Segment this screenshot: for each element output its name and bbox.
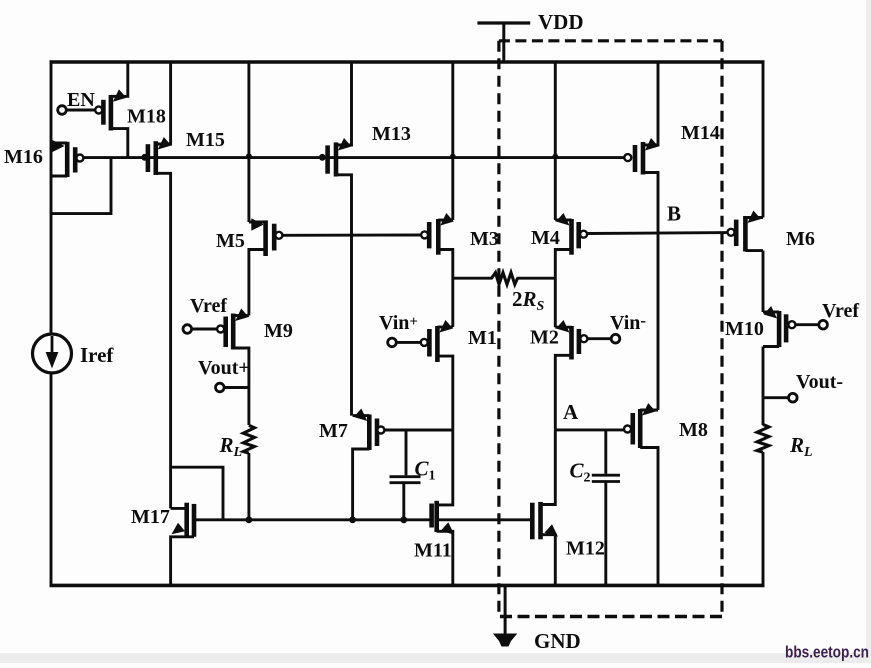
wire M16 drain loop [51,159,111,214]
transistor M7 [353,409,385,520]
svg-text:M5: M5 [216,230,245,252]
node dot M13 gate [319,154,326,161]
transistor M12 [530,430,558,586]
terminal Vref right [819,320,828,329]
wire PMOS gate bus [83,156,624,159]
svg-text:M1: M1 [468,327,497,349]
label GND [534,629,581,653]
svg-text:GND: GND [534,629,581,653]
label M9 [264,320,293,342]
svg-text:VDD: VDD [538,10,584,34]
transistor M14 [624,62,658,410]
node dot M15 gate [141,154,148,161]
svg-text:Vout+: Vout+ [198,357,250,379]
label Vin- [610,311,646,334]
svg-text:Vref: Vref [822,300,859,322]
node dot bus-M7 [349,516,356,523]
terminal Vout+ [216,383,225,392]
junction M4-stem x gate bus [553,154,559,160]
wire Vout- tap [763,396,789,399]
label M12 [566,538,605,560]
label M1 [468,327,497,349]
label Vref right [822,300,859,322]
wire bottom bus left [194,518,432,521]
svg-text:M2: M2 [530,327,559,349]
label C2 [570,459,591,486]
label M7 [319,420,348,442]
svg-text:M15: M15 [186,129,225,151]
transistor M9 [192,309,249,388]
transistor M8 [624,403,658,585]
wire C1 top [405,430,408,475]
dashed box right edge [720,41,723,617]
svg-text:Vout-: Vout- [796,371,843,393]
transistor M2 [555,320,611,430]
wire C1 bottom [402,483,405,520]
label M2 [530,327,559,349]
label M10 [725,318,764,340]
label M11 [414,540,452,562]
wire bottom bus right [437,518,533,521]
capacitor C2 [592,475,620,481]
transistor M4 [555,213,587,327]
label M5 [216,230,245,252]
terminal Vout- [789,393,798,402]
label VDD [538,10,584,34]
wire left border upper [50,62,53,334]
wire 2RS right [517,277,556,280]
svg-text:M8: M8 [679,419,708,441]
transistor M6 [728,211,764,252]
terminal Vin- [611,334,620,343]
wire node B [587,231,727,235]
transistor M15 [146,62,172,508]
svg-text:Iref: Iref [80,343,114,367]
node dot bus-C1 [400,516,407,523]
wire C2 bottom [604,482,607,586]
svg-text:M9: M9 [264,320,293,342]
svg-text:M3: M3 [470,228,499,250]
label A [563,400,579,424]
dashed box bottom edge [500,615,722,618]
wire M4 source stem [554,62,557,220]
label Vref left [190,295,227,317]
label M4 [531,227,560,249]
wire Vout+ tap [224,386,249,389]
transistor M17 [171,503,197,586]
svg-text:A: A [563,400,579,424]
svg-text:M18: M18 [127,106,166,128]
junction M3-stem x gate bus [450,154,456,160]
label EN [67,89,95,111]
label M15 [186,129,225,151]
wire GND bottom rail [50,584,765,588]
label M17 [131,506,170,528]
wire M5-M3 gate [282,234,421,237]
svg-text:M6: M6 [786,228,815,250]
label M18 [127,106,166,128]
svg-text:M16: M16 [4,146,43,168]
capacitor C1 [390,477,421,483]
label Vout- [796,371,843,393]
svg-text:B: B [667,202,681,226]
terminal EN [58,106,67,115]
wire node A [555,428,624,431]
wire RL-left top [247,388,250,426]
wire M17 gate-drain loop [171,467,223,520]
label 2RS [512,287,545,314]
svg-text:M4: M4 [531,227,560,249]
power GND symbol [493,585,517,646]
resistor RL left [243,425,254,453]
svg-text:M14: M14 [681,122,720,144]
resistor 2RS [492,273,518,285]
transistor M11 [429,430,454,586]
wire 2RS left [453,277,493,280]
label RL left [219,433,243,460]
terminal Vin+ [388,338,397,347]
label Vin+ [379,312,418,334]
transistor M3 [421,213,454,327]
dashed box top edge [499,39,722,42]
power VDD symbol [477,23,530,62]
label M16 [4,146,43,168]
dashed box left edge [497,41,500,617]
label RL right [789,433,813,460]
wire left border lower [50,374,53,586]
transistor M1 [396,320,453,430]
label M6 [786,228,815,250]
svg-text:M12: M12 [566,538,605,560]
label Vout+ [198,357,250,379]
svg-text:bbs.eetop.cn: bbs.eetop.cn [785,643,869,662]
svg-text:M10: M10 [725,318,764,340]
wire right border M6/M10 stem [762,62,765,585]
svg-text:M7: M7 [319,420,348,442]
terminal Vref left [183,325,192,334]
svg-text:M11: M11 [414,540,452,562]
transistor M10 [763,306,819,347]
label C1 [415,457,436,484]
resistor RL right [757,424,769,452]
wire M5 source stem [247,62,250,222]
node dot bus-RL [246,516,253,523]
svg-text:M17: M17 [131,506,170,528]
label Iref [80,343,114,367]
transistor M16 [51,140,83,177]
junction M5-stem x gate bus [246,153,252,159]
label watermark bbs.eetop.cn [785,643,869,662]
svg-text:M13: M13 [372,123,411,145]
wire VDD top rail [50,60,765,64]
label B [667,202,681,226]
wire M3 source stem [451,62,454,220]
label M14 [681,122,720,144]
label M3 [470,228,499,250]
svg-text:EN: EN [67,89,95,111]
wire C2 top [604,430,607,474]
wire RL-left bottom [247,453,250,520]
wire M7 gate to M1 source [384,429,452,432]
transistor M5 [249,218,283,315]
svg-text:Vref: Vref [190,295,227,317]
transistor M13 [325,62,351,416]
current source Iref [33,334,72,373]
transistor M18 [62,62,128,158]
label M8 [679,419,708,441]
label M13 [372,123,411,145]
